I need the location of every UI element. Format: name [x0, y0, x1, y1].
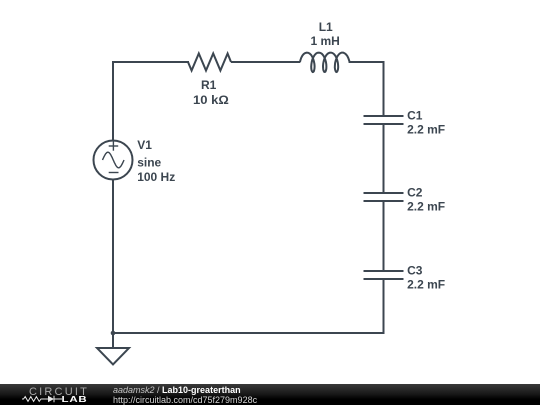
svg-text:2.2 mF: 2.2 mF	[407, 200, 445, 214]
footer text line 1	[113, 385, 257, 405]
ground symbol	[97, 348, 129, 365]
wire top-left horizontal (node from V1 to R1)	[113, 61, 188, 63]
ground stem wire	[112, 333, 114, 348]
junction node at ground	[111, 331, 116, 336]
wire C1 to C2	[383, 124, 385, 193]
resistor R1	[188, 54, 231, 71]
svg-text:2.2 mF: 2.2 mF	[407, 278, 445, 292]
svg-text:10 kΩ: 10 kΩ	[193, 93, 229, 107]
capacitor C3 plates	[364, 270, 404, 272]
wire left vertical below V1	[112, 180, 114, 334]
wire right vertical above C1	[383, 62, 385, 116]
wire C3 to bottom-right corner	[383, 279, 385, 333]
wire C2 to C3	[383, 201, 385, 271]
logo resistor zigzag and diode	[22, 396, 62, 402]
wire L1 to top-right corner	[350, 62, 384, 116]
wire bottom horizontal	[113, 332, 384, 334]
capacitor C2 plates	[364, 192, 404, 194]
voltage source V1 circle	[94, 141, 133, 180]
svg-text:R1: R1	[201, 78, 217, 92]
V1 plus sign	[109, 141, 119, 150]
svg-text:LAB: LAB	[62, 395, 88, 404]
inductor L1	[300, 53, 350, 72]
svg-text:V1: V1	[137, 138, 152, 152]
V1 minus sign	[109, 172, 119, 174]
svg-text:C2: C2	[407, 186, 423, 200]
footer bar	[0, 384, 540, 405]
svg-text:2.2 mF: 2.2 mF	[407, 123, 445, 137]
wire R1 to L1	[231, 61, 300, 63]
svg-text:L1: L1	[319, 20, 333, 34]
svg-text:100 Hz: 100 Hz	[137, 170, 175, 184]
svg-text:1 mH: 1 mH	[311, 34, 340, 48]
capacitor C1 plates	[364, 115, 404, 117]
svg-text:C1: C1	[407, 109, 423, 123]
wire left vertical above V1	[112, 62, 114, 141]
svg-text:C3: C3	[407, 264, 423, 278]
svg-text:sine: sine	[137, 155, 161, 169]
CircuitLab logo	[0, 384, 110, 405]
V1 sine waveform	[103, 152, 125, 168]
